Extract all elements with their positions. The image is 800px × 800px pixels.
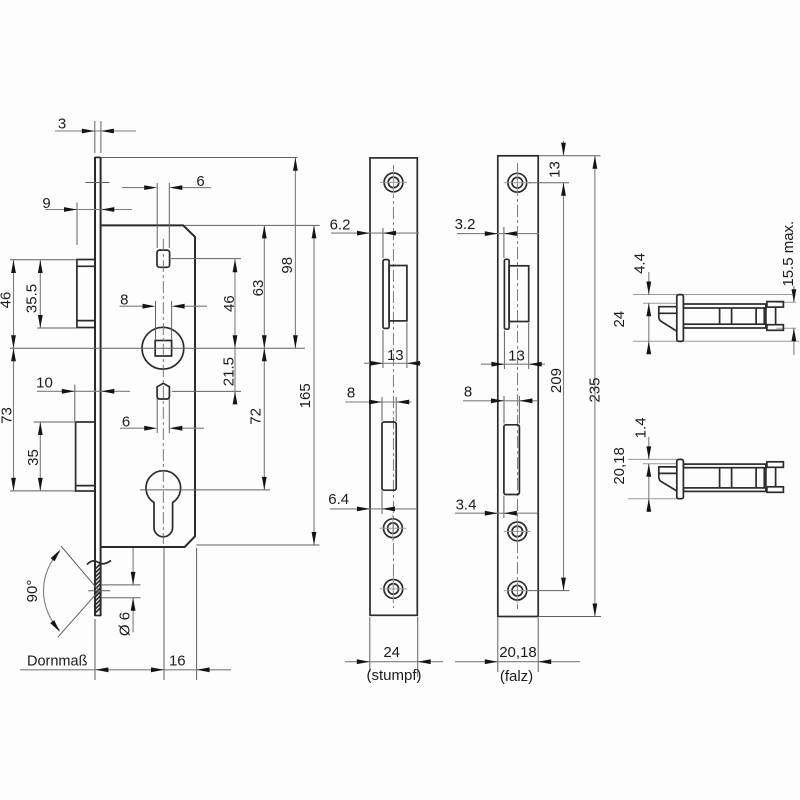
dimension 3.2 bbox=[455, 216, 539, 258]
dimension 20,18 (latch height) bbox=[611, 447, 651, 512]
extension line faceplate top right bbox=[101, 157, 298, 159]
lower latch faceplate bar bbox=[677, 459, 684, 498]
upper latch faceplate bar bbox=[677, 295, 684, 342]
svg-text:35.5: 35.5 bbox=[23, 284, 40, 313]
plate 1 top screw hole bbox=[380, 169, 407, 196]
svg-text:20,18: 20,18 bbox=[611, 447, 628, 485]
extension line case bottom right bbox=[197, 544, 320, 546]
svg-text:13: 13 bbox=[508, 348, 525, 365]
dimension 3.4 bbox=[455, 496, 537, 519]
striking plate 1 (stumpf) outline bbox=[370, 158, 417, 615]
dimension 20,18 (plate 2 width) bbox=[455, 618, 580, 685]
profile cylinder hole bbox=[146, 471, 181, 537]
svg-text:21.5: 21.5 bbox=[220, 357, 237, 386]
svg-text:20,18: 20,18 bbox=[499, 644, 537, 661]
svg-text:1.4: 1.4 bbox=[633, 417, 650, 438]
svg-text:(stumpf): (stumpf) bbox=[366, 667, 421, 684]
dimension 6 (lower hole width) bbox=[120, 399, 204, 433]
svg-text:13: 13 bbox=[387, 347, 404, 364]
svg-text:3.4: 3.4 bbox=[456, 497, 477, 514]
svg-text:3: 3 bbox=[58, 116, 66, 133]
svg-text:3.2: 3.2 bbox=[455, 216, 476, 233]
svg-text:165: 165 bbox=[297, 383, 314, 408]
dimension 10 (deadbolt projection) bbox=[36, 375, 130, 422]
svg-text:90°: 90° bbox=[24, 580, 41, 603]
plate 1 bottom screw hole bbox=[380, 575, 407, 602]
dimension 63 bbox=[250, 225, 267, 348]
dimension 165 bbox=[297, 225, 317, 545]
extension line lower hole center bbox=[172, 390, 241, 392]
dimension 35.5 bbox=[23, 260, 42, 328]
break squiggle on faceplate bbox=[87, 561, 111, 565]
svg-text:Ø 6: Ø 6 bbox=[116, 612, 133, 636]
svg-text:13: 13 bbox=[546, 161, 563, 178]
svg-text:209: 209 bbox=[548, 368, 565, 393]
svg-text:6.2: 6.2 bbox=[330, 217, 351, 234]
dimension 35 bbox=[25, 422, 43, 491]
svg-text:9: 9 bbox=[42, 195, 50, 212]
plate 2 latch pocket bbox=[504, 259, 528, 329]
short tick left of faceplate bbox=[86, 182, 110, 184]
plate 2 bottom screw hole bbox=[504, 577, 531, 604]
svg-text:24: 24 bbox=[383, 644, 400, 661]
dimension 209 bbox=[529, 368, 570, 591]
svg-text:46: 46 bbox=[0, 292, 14, 309]
svg-text:73: 73 bbox=[0, 407, 15, 424]
lock faceplate (edge view) bbox=[95, 157, 101, 616]
svg-text:8: 8 bbox=[120, 292, 128, 309]
lower latch end caps bbox=[766, 462, 784, 493]
upper latch body rails bbox=[683, 304, 766, 328]
dimension 73 bbox=[0, 348, 16, 491]
svg-text:6.4: 6.4 bbox=[328, 491, 349, 508]
lower latch cross-section datum lines bbox=[628, 459, 680, 498]
plate 1 centerline bbox=[392, 165, 394, 608]
svg-text:6: 6 bbox=[196, 173, 204, 190]
svg-text:8: 8 bbox=[347, 385, 355, 402]
svg-text:(falz): (falz) bbox=[500, 668, 533, 685]
plate 2 centerline bbox=[517, 163, 519, 609]
dimension 24 (latch height) bbox=[611, 311, 651, 354]
dimension 24 (plate 1 width) bbox=[345, 617, 443, 684]
dimension 8 (plate 2 slot) bbox=[463, 384, 537, 424]
lower latch body rails bbox=[683, 464, 766, 491]
upper latch bolt nose bbox=[659, 307, 677, 332]
dimension 6.2 bbox=[330, 217, 419, 259]
follower hub with square hole bbox=[142, 327, 184, 369]
dimension 8 (plate 1 slot) bbox=[345, 385, 412, 422]
dimension 72 bbox=[247, 348, 266, 490]
dimension 13 (plate 2 pocket) bbox=[481, 323, 545, 369]
striking plate 2 (falz) outline bbox=[498, 156, 538, 617]
svg-text:63: 63 bbox=[250, 280, 267, 297]
plate 2 middle screw hole bbox=[504, 518, 531, 545]
plate 1 middle screw hole bbox=[379, 515, 406, 542]
upper latch cross-section datum lines bbox=[633, 295, 799, 342]
bottom dimension line (Dornmass / 16) bbox=[20, 548, 231, 680]
dimension 9 (latch projection) bbox=[42, 195, 132, 245]
dimension 6 (upper hole width) bbox=[122, 173, 211, 248]
dimension 6.4 bbox=[328, 491, 417, 514]
dimension diameter 6 (latch tail) bbox=[101, 548, 141, 636]
svg-text:72: 72 bbox=[247, 408, 264, 425]
plate 1 latch pocket bbox=[383, 260, 407, 329]
svg-text:24: 24 bbox=[611, 311, 628, 328]
lower fixing hole bbox=[157, 383, 169, 399]
extension line latch top bbox=[10, 259, 77, 261]
dimension 13 (plate 2 top, to screw center) bbox=[529, 141, 601, 591]
upper fixing hole bbox=[157, 250, 170, 267]
lower latch bolt nose bbox=[659, 467, 677, 491]
svg-text:6: 6 bbox=[122, 414, 130, 431]
svg-text:Dornmaß: Dornmaß bbox=[27, 654, 88, 670]
plate 2 deadbolt slot bbox=[504, 425, 520, 495]
dimension 21.5 bbox=[220, 348, 237, 404]
svg-text:35: 35 bbox=[25, 449, 42, 466]
dimension 98 bbox=[279, 158, 298, 349]
extension line deadbolt bottom datum bbox=[10, 490, 75, 492]
dimension 46 (right) bbox=[221, 259, 238, 348]
svg-text:16: 16 bbox=[169, 653, 186, 670]
svg-text:4.4: 4.4 bbox=[632, 253, 649, 274]
svg-text:8: 8 bbox=[464, 384, 472, 401]
dimension 235 bbox=[538, 156, 603, 617]
dimension 46 (left) bbox=[0, 260, 16, 348]
svg-text:10: 10 bbox=[36, 375, 53, 392]
upper latch end caps bbox=[766, 302, 784, 331]
extension line deadbolt top bbox=[34, 421, 76, 423]
lock case outline bbox=[101, 225, 195, 547]
hatched latch tail section on faceplate bbox=[95, 564, 100, 613]
extension line case top right bbox=[184, 224, 320, 226]
dimension 1.4 bbox=[633, 417, 652, 498]
dimension 4.4 bbox=[632, 253, 652, 341]
dimension 15.5 max. bbox=[780, 221, 797, 355]
extension line upper hole center bbox=[171, 258, 241, 260]
latch bolt head (side) bbox=[77, 260, 95, 328]
vertical centerline of lock bbox=[162, 239, 164, 544]
datum line through follower center bbox=[10, 347, 305, 349]
dimension 3 (faceplate thickness) bbox=[55, 116, 136, 154]
dimension 8 (follower square) bbox=[120, 292, 208, 340]
svg-text:46: 46 bbox=[221, 295, 238, 312]
plate 1 deadbolt slot bbox=[382, 422, 396, 490]
deadbolt head (side) bbox=[76, 422, 95, 491]
svg-text:98: 98 bbox=[279, 257, 296, 274]
dimension 13 (plate 1 pocket) bbox=[364, 323, 421, 369]
svg-text:15.5 max.: 15.5 max. bbox=[780, 221, 797, 287]
svg-text:235: 235 bbox=[587, 377, 604, 402]
extension line latch bottom bbox=[37, 327, 77, 329]
90 degree opening angle bbox=[24, 546, 99, 637]
tick through angle vertex bbox=[88, 590, 110, 592]
plate 2 top screw hole bbox=[504, 169, 531, 196]
extension line cylinder center bbox=[140, 489, 270, 491]
